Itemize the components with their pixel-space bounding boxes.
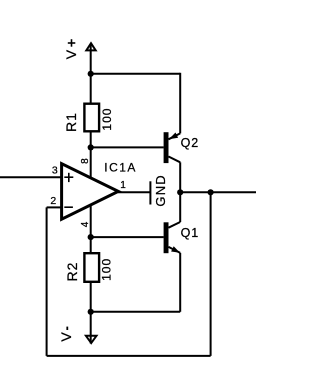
wire Q1 base bbox=[91, 236, 164, 238]
wire node to node bbox=[180, 191, 210, 193]
svg-text:V: V bbox=[58, 332, 74, 342]
wire bottom rail bbox=[91, 311, 181, 313]
wire Q1 collector vertical bbox=[179, 192, 181, 222]
svg-text:100: 100 bbox=[100, 258, 114, 281]
wire pin 4 bbox=[90, 206, 92, 238]
wire Q1 emitter vertical bbox=[179, 253, 181, 312]
svg-text:4: 4 bbox=[80, 221, 91, 227]
svg-text:2: 2 bbox=[50, 195, 56, 207]
junction R2 bottom bbox=[88, 309, 94, 315]
op-amp IC1A bbox=[62, 164, 119, 220]
wire R2 top bbox=[90, 237, 92, 253]
junction V+ bbox=[88, 71, 94, 77]
wire V+ rail top bbox=[91, 73, 181, 75]
wire R2 bottom bbox=[90, 282, 92, 312]
wire Q2 collector vertical bbox=[179, 162, 181, 192]
wire V+ stem bbox=[90, 44, 92, 74]
svg-text:Q2: Q2 bbox=[181, 136, 199, 150]
wire input to pin 3 bbox=[0, 176, 62, 178]
svg-text:8: 8 bbox=[80, 158, 91, 164]
wire output to right edge bbox=[211, 191, 256, 193]
wire rail corner down to Q2 emitter bbox=[179, 73, 181, 134]
svg-text:GND: GND bbox=[153, 174, 168, 207]
wire Q2 base bbox=[91, 146, 164, 148]
transistor Q2 base bar bbox=[164, 132, 169, 163]
resistor R1 bbox=[84, 104, 99, 132]
op-amp plus input marking bbox=[64, 176, 73, 178]
junction output node right bbox=[208, 189, 214, 195]
transistor Q1 emitter arrow (NPN) bbox=[171, 246, 180, 253]
svg-text:Q1: Q1 bbox=[181, 226, 199, 240]
transistor Q1 collector diagonal bbox=[169, 222, 181, 228]
junction R1 bottom bbox=[88, 144, 94, 150]
wire pin 8 bbox=[90, 147, 92, 177]
junction output node left bbox=[177, 189, 183, 195]
supply symbol V- bbox=[86, 336, 97, 343]
transistor Q2 emitter diagonal bbox=[169, 133, 181, 139]
svg-text:R2: R2 bbox=[64, 262, 80, 282]
wire feedback left vertical bbox=[46, 207, 48, 356]
op-amp minus input marking bbox=[64, 206, 73, 208]
wire R1 top bbox=[90, 74, 92, 104]
svg-text:3: 3 bbox=[52, 165, 58, 177]
supply symbol V+ bbox=[86, 43, 95, 50]
wire pin 2 bbox=[47, 206, 62, 208]
wire R1 bottom bbox=[90, 131, 92, 147]
transistor Q1 emitter diagonal bbox=[169, 247, 181, 253]
wire feedback bottom bbox=[47, 355, 211, 357]
svg-text:IC1A: IC1A bbox=[104, 160, 136, 174]
wire output pin 1 to ground bbox=[118, 191, 150, 193]
transistor Q2 emitter arrow (PNP) bbox=[169, 133, 178, 140]
svg-text:1: 1 bbox=[120, 180, 126, 191]
svg-text:R1: R1 bbox=[63, 112, 79, 132]
transistor Q2 collector diagonal bbox=[169, 157, 181, 163]
resistor R2 bbox=[84, 253, 99, 282]
junction pin 4 / R2 top bbox=[88, 234, 94, 240]
transistor Q1 base bar bbox=[164, 222, 169, 253]
wire feedback right vertical bbox=[210, 192, 212, 356]
wire V- stem bbox=[90, 312, 92, 344]
svg-text:100: 100 bbox=[100, 108, 114, 131]
ground symbol GND bbox=[149, 181, 151, 204]
svg-text:V: V bbox=[63, 49, 79, 59]
